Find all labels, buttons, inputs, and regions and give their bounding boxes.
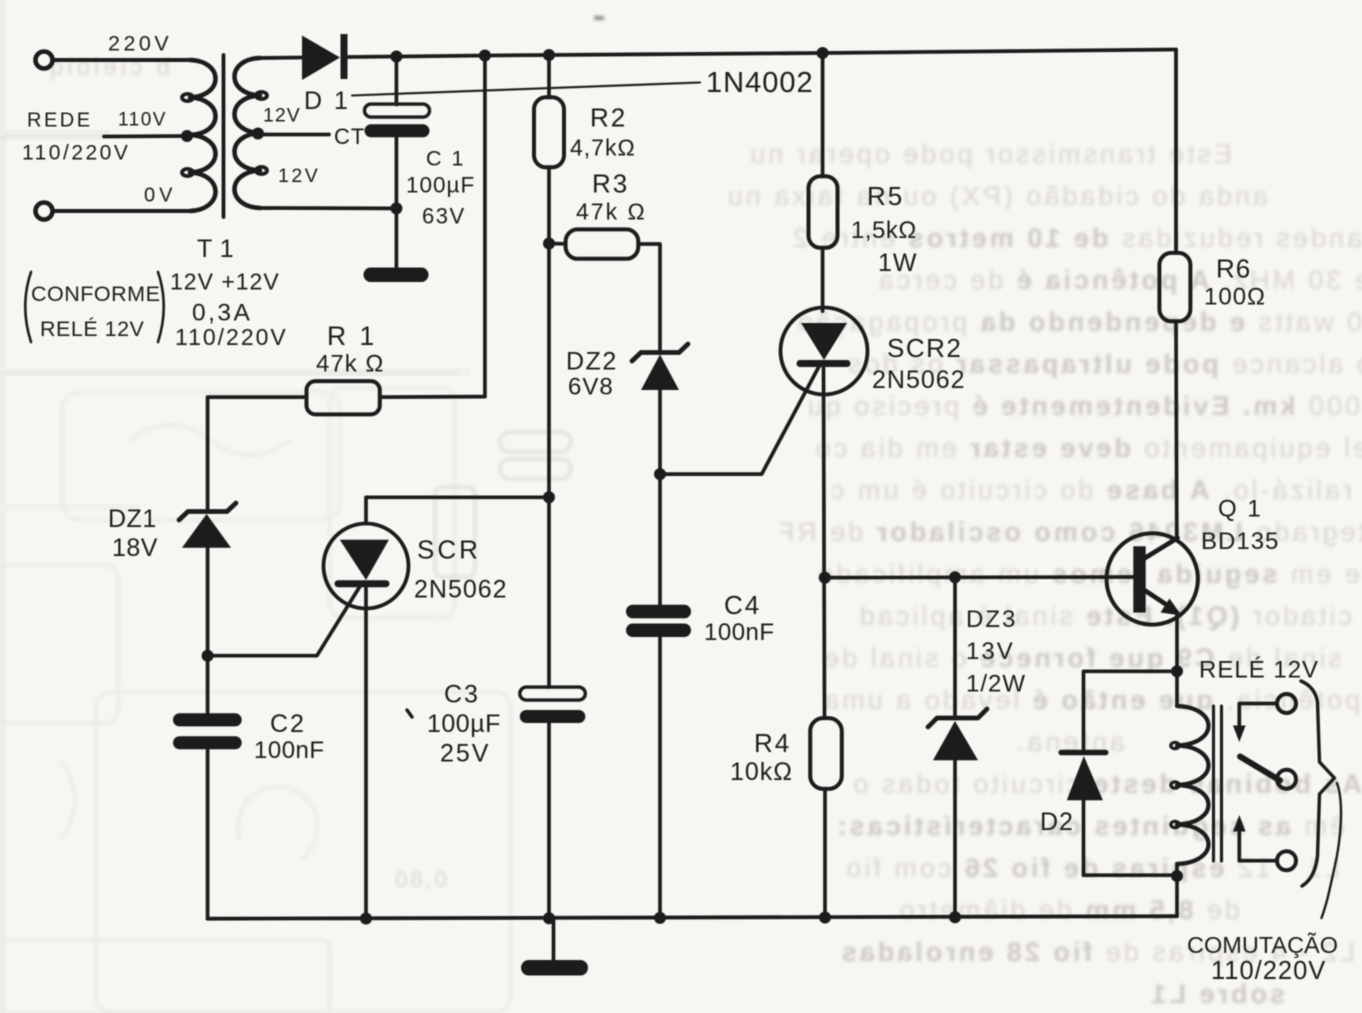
svg-text:R6: R6	[1216, 254, 1251, 284]
node R2 branch	[543, 49, 555, 61]
svg-text:CT: CT	[334, 124, 365, 149]
wire R2 to R3 node	[547, 167, 551, 243]
svg-text:100nF: 100nF	[704, 619, 775, 646]
capacitor C2	[173, 713, 242, 749]
wire relay to rail	[1175, 876, 1179, 916]
arrow bottom contact	[1233, 815, 1246, 832]
resistor R2	[534, 97, 564, 167]
wire SCR gate lead	[208, 583, 362, 656]
node SCR anode junction	[543, 491, 555, 503]
svg-text:13V: 13V	[966, 638, 1015, 665]
svg-text:10kΩ: 10kΩ	[730, 758, 793, 786]
apostrophe C3	[407, 710, 412, 717]
wire 110V tap	[104, 134, 187, 138]
wire Q1 emitter	[1175, 612, 1179, 671]
svg-text:de 8,5 mm de diâmetro.: de 8,5 mm de diâmetro.	[886, 895, 1240, 925]
svg-text:COMUTAÇÃO: COMUTAÇÃO	[1187, 932, 1338, 958]
capacitor C3	[520, 687, 586, 723]
svg-text:C2: C2	[270, 710, 306, 738]
transistor Q1	[1107, 533, 1198, 624]
wire R4 bottom	[823, 789, 827, 917]
relay contact top lead	[1239, 704, 1277, 730]
svg-text:e 30 MHz. A potência é de cerc: e 30 MHz. A potência é de cerca	[876, 265, 1362, 295]
svg-text:RELÉ 12V: RELÉ 12V	[40, 316, 145, 341]
node R1 branch	[479, 50, 491, 62]
node CT cusp	[252, 128, 264, 140]
wire R1 branch vertical	[483, 56, 487, 397]
svg-text:êm as seguintes característica: êm as seguintes características:	[835, 811, 1345, 841]
decorative faint band	[0, 372, 458, 375]
svg-text:C4: C4	[724, 590, 761, 620]
svg-text:L1 - 12 espiras de fio 26 com: L1 - 12 espiras de fio 26 com fio	[843, 853, 1340, 883]
decorative ghost figure boxes lower-left	[0, 388, 511, 1013]
transformer T1 primary winding	[182, 60, 216, 211]
svg-text:1N4002: 1N4002	[706, 67, 814, 99]
svg-text:100µF: 100µF	[406, 173, 475, 198]
svg-text:D 1: D 1	[304, 87, 350, 115]
wire C3 bottom	[547, 723, 551, 919]
wire DZ3 top	[953, 577, 957, 716]
svg-text:R4: R4	[754, 728, 791, 758]
relay contact top terminal	[1277, 694, 1296, 713]
svg-text:SCR: SCR	[417, 535, 481, 565]
arrow top contact	[1233, 726, 1246, 743]
svg-text:12V: 12V	[263, 105, 301, 127]
decorative ghost marks centre	[435, 432, 571, 577]
node emitter junction	[1171, 665, 1183, 677]
thyristor SCR	[324, 524, 409, 609]
wire D2 bottom lead	[1084, 800, 1178, 875]
svg-text:R 1: R 1	[327, 321, 377, 351]
brace contacts	[1301, 681, 1334, 886]
wire 220V input	[53, 58, 193, 62]
decorative small speck	[594, 16, 604, 20]
svg-text:CONFORME: CONFORME	[31, 282, 160, 306]
svg-text:1,5kΩ: 1,5kΩ	[851, 217, 917, 244]
wire R1 right lead	[380, 395, 485, 399]
callout line 1N4002	[352, 83, 700, 96]
wire C1 top	[395, 57, 399, 105]
svg-text:63V: 63V	[422, 204, 466, 229]
zener DZ1	[179, 503, 236, 548]
svg-text:110/220V: 110/220V	[22, 142, 130, 165]
node rail C3	[543, 912, 555, 924]
svg-text:0V: 0V	[144, 185, 176, 207]
zener DZ2	[632, 344, 688, 390]
node rail SCR	[360, 913, 372, 925]
node rectifier output	[390, 51, 402, 63]
svg-text:2N5062: 2N5062	[414, 576, 508, 604]
svg-text:100µF: 100µF	[427, 710, 501, 738]
node relay bottom junction	[1171, 870, 1183, 882]
wire DZ2 bottom	[658, 390, 662, 605]
svg-text:DZ3: DZ3	[966, 606, 1017, 633]
relay contact bottom terminal	[1277, 851, 1296, 870]
wire R3 right lead	[638, 244, 660, 352]
wire C2 top	[206, 656, 210, 714]
svg-text:47k Ω: 47k Ω	[576, 199, 647, 225]
svg-text:ralizá-lo. A base do circuito: ralizá-lo. A base do circuito é um c	[828, 475, 1352, 505]
svg-text:REDE: REDE	[27, 110, 93, 132]
node rail C4	[654, 912, 666, 924]
svg-text:0 watts e dependendo da propag: 0 watts e dependendo da propagação	[795, 307, 1362, 337]
resistor R1	[307, 381, 380, 414]
wire C2 bottom	[206, 749, 210, 918]
thyristor SCR2	[781, 308, 868, 395]
relay core	[1214, 706, 1222, 861]
ground under C1	[364, 268, 429, 283]
relay movable arm	[1240, 757, 1280, 781]
relay coil	[1171, 671, 1209, 876]
svg-text:6V8: 6V8	[568, 374, 614, 401]
node R3 junction	[543, 238, 555, 250]
svg-text:0,80: 0,80	[392, 867, 447, 892]
svg-text:RELÉ 12V: RELÉ 12V	[1199, 657, 1319, 684]
wire SCR cathode	[364, 584, 368, 919]
wire bottom rail	[208, 916, 1177, 919]
svg-text:DZ2: DZ2	[566, 348, 618, 376]
svg-text:R3: R3	[592, 169, 629, 199]
diode D2	[1061, 753, 1106, 801]
wire DZ3 bottom	[953, 760, 957, 916]
svg-text:18V: 18V	[112, 534, 158, 562]
svg-text:e em seguida temos um amplific: e em seguida temos um amplificado	[815, 559, 1360, 589]
wire R5 to SCR2	[821, 248, 825, 311]
wire top rail	[347, 50, 1176, 58]
svg-text:100Ω: 100Ω	[1204, 284, 1266, 311]
wire CT	[258, 133, 329, 137]
svg-text:110/220V: 110/220V	[175, 324, 288, 350]
terminal 0V	[36, 203, 53, 220]
svg-text:C 1: C 1	[426, 147, 465, 171]
capacitor C1	[365, 104, 430, 137]
svg-text:C3: C3	[444, 681, 480, 709]
resistor R4	[810, 718, 842, 789]
wire D2 top lead	[1084, 671, 1178, 751]
svg-text:DZ1: DZ1	[108, 505, 157, 533]
node DZ1 C2 junction	[202, 650, 214, 662]
svg-text:Este transmissor pode operar n: Este transmissor pode operar nu	[747, 139, 1232, 169]
relay contact bottom lead	[1239, 828, 1277, 861]
svg-text:110/220V: 110/220V	[1211, 957, 1326, 985]
wire DZ1 to gate node	[206, 548, 210, 656]
ground main	[521, 960, 588, 976]
wire secondary top to D1	[260, 56, 302, 60]
wire R2 top	[547, 55, 551, 97]
resistor R3	[566, 229, 639, 258]
wire R3 left lead	[549, 242, 566, 246]
wire C1 bottom	[395, 137, 399, 267]
svg-text:0,3A: 0,3A	[192, 300, 252, 327]
wire ground stub	[552, 918, 556, 960]
svg-text:1/2W: 1/2W	[966, 671, 1026, 698]
decorative faint tap line extension	[0, 136, 104, 139]
svg-text:R2: R2	[590, 103, 627, 133]
svg-text:4,7kΩ: 4,7kΩ	[570, 135, 636, 161]
transformer T1 secondary winding	[235, 58, 268, 208]
svg-text:As bobinas deste circuito toda: As bobinas deste circuito todas o	[850, 769, 1362, 799]
wire R5 top	[821, 53, 825, 176]
wire 0V input	[53, 209, 193, 213]
node rail R4	[819, 912, 831, 924]
node SCR2 cathode junction	[819, 572, 831, 584]
svg-text:12V +12V: 12V +12V	[170, 269, 280, 295]
svg-text:T 1: T 1	[197, 235, 234, 263]
svg-text:R5: R5	[867, 181, 904, 211]
svg-text:000 km. Evidentemente é precis: 000 km. Evidentemente é preciso qu	[805, 391, 1360, 421]
svg-text:110V: 110V	[118, 110, 167, 131]
resistor R6	[1159, 253, 1190, 321]
paren right	[158, 272, 164, 342]
resistor R5	[809, 176, 838, 248]
wire R6 to Q1 collector	[1174, 321, 1179, 540]
svg-text:47k Ω: 47k Ω	[316, 351, 384, 378]
wire C3 line	[547, 497, 551, 687]
svg-text:12V: 12V	[278, 165, 320, 187]
svg-text:Q 1: Q 1	[1218, 496, 1263, 523]
wire secondary bottom	[260, 206, 396, 210]
transformer T1 core	[222, 55, 226, 217]
node DZ2 C4 junction	[654, 468, 666, 480]
svg-text:220V: 220V	[108, 32, 172, 56]
svg-text:anda do cidadão (PX) ou na fai: anda do cidadão (PX) ou na faixa nu	[725, 181, 1268, 211]
node secondary return	[390, 202, 402, 214]
terminal 220V	[36, 52, 53, 69]
svg-text:1W: 1W	[878, 249, 918, 277]
svg-text:D2: D2	[1040, 808, 1074, 836]
relay contact middle terminal	[1277, 770, 1296, 789]
zener DZ3	[928, 709, 987, 760]
capacitor C4	[626, 605, 691, 637]
svg-text:100nF: 100nF	[254, 737, 325, 764]
node R5 branch	[817, 47, 829, 59]
svg-text:SCR2: SCR2	[887, 333, 962, 363]
leader line to COMUTACAO	[1322, 783, 1342, 918]
svg-text:el equipamento deve estar em d: el equipamento deve estar em dia co	[813, 433, 1362, 463]
wire C4 bottom	[658, 637, 662, 919]
wire SCR2 gate lead	[660, 365, 820, 475]
svg-text:25V: 25V	[440, 740, 490, 768]
wire SCR2 cathode	[824, 364, 825, 719]
node rail DZ3	[949, 911, 961, 923]
wire right rail down to R6	[1174, 50, 1178, 253]
diode D1	[302, 34, 348, 80]
node primary tap	[181, 130, 193, 142]
wire SCR anode node line	[547, 244, 551, 498]
paren left	[25, 272, 31, 342]
svg-text:citador (Q1). Este sinal é apl: citador (Q1). Este sinal é aplicad	[857, 601, 1352, 631]
wire R1 left lead	[208, 397, 307, 511]
wire base rail	[825, 575, 1134, 579]
svg-text:2N5062: 2N5062	[872, 366, 966, 394]
wire SCR anode	[366, 497, 549, 523]
svg-text:BD135: BD135	[1201, 528, 1279, 555]
node DZ3 top	[949, 571, 961, 583]
